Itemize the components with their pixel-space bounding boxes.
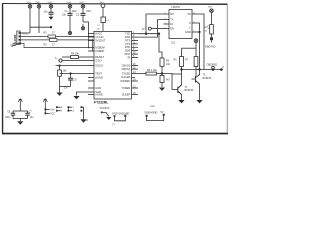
svg-text:DCD: DCD: [125, 52, 131, 56]
svg-text:VCC: VCC: [27, 2, 32, 4]
svg-text:K: K: [189, 21, 191, 25]
svg-text:PWREN: PWREN: [121, 79, 131, 83]
svg-text:2: 2: [165, 27, 166, 29]
svg-text:5: 5: [194, 30, 195, 32]
svg-text:GND GNDGND: GND GNDGND: [112, 112, 130, 115]
svg-text:4: 4: [165, 18, 166, 20]
svg-text:6: 6: [194, 21, 195, 23]
svg-text:AGND: AGND: [95, 92, 103, 96]
svg-text:R8 1.13k: R8 1.13k: [147, 69, 157, 72]
svg-text:VCC: VCC: [23, 32, 28, 35]
svg-text:TXD: TXD: [125, 32, 130, 36]
svg-text:SLEEP: SLEEP: [122, 92, 131, 96]
svg-text:TEST: TEST: [95, 71, 102, 75]
svg-text:OSCO: OSCO: [95, 64, 103, 68]
svg-text:DI: DI: [170, 22, 173, 26]
svg-text:VCC: VCC: [50, 113, 55, 116]
svg-text:100n: 100n: [5, 116, 11, 119]
svg-text:RESET: RESET: [95, 55, 104, 59]
svg-text:RTS: RTS: [125, 38, 130, 42]
svg-text:L9637D: L9637D: [172, 6, 181, 9]
svg-text:RXD: RXD: [125, 35, 131, 39]
svg-text:VCC: VCC: [48, 2, 53, 4]
svg-text:IC2: IC2: [171, 41, 176, 45]
svg-text:GND: GND: [150, 106, 155, 108]
svg-text:EN: EN: [170, 27, 174, 31]
svg-text:8: 8: [194, 12, 195, 14]
svg-text:10u: 10u: [30, 116, 35, 119]
svg-text:RX: RX: [170, 12, 174, 16]
svg-text:R4 10k: R4 10k: [71, 53, 79, 56]
svg-text:OBDRXD: OBDRXD: [207, 63, 218, 66]
svg-text:4k7: 4k7: [166, 79, 171, 82]
svg-text:GND: GND: [185, 30, 191, 34]
svg-text:3: 3: [165, 22, 166, 24]
svg-text:TXDEN: TXDEN: [121, 86, 130, 90]
svg-text:GND: GND: [11, 44, 17, 47]
svg-text:USBDP: USBDP: [95, 49, 104, 53]
svg-text:VCC5V0: VCC5V0: [100, 107, 110, 110]
svg-text:USBDM: USBDM: [95, 45, 104, 49]
svg-text:VS: VS: [187, 12, 191, 16]
svg-text:5V: 5V: [161, 111, 164, 114]
svg-text:CBUS0: CBUS0: [122, 64, 131, 68]
svg-text:DTR: DTR: [125, 45, 130, 49]
svg-text:FT232RL: FT232RL: [94, 101, 108, 105]
svg-text:VCCIO: VCCIO: [95, 35, 103, 39]
svg-text:10n: 10n: [62, 14, 67, 17]
svg-text:OBDTXD: OBDTXD: [205, 46, 216, 49]
svg-text:10n: 10n: [44, 10, 49, 13]
svg-text:CBUS1: CBUS1: [122, 67, 131, 71]
svg-text:LUSB: LUSB: [13, 34, 17, 43]
svg-text:AGND: AGND: [95, 75, 103, 79]
svg-text:+5V: +5V: [50, 109, 55, 112]
svg-text:GND: GND: [95, 86, 101, 90]
svg-text:AVCC: AVCC: [95, 31, 102, 35]
svg-text:VCC: VCC: [67, 2, 72, 4]
svg-text:RXLED: RXLED: [122, 75, 131, 79]
svg-text:TX: TX: [170, 18, 174, 22]
svg-text:TXLED: TXLED: [122, 71, 130, 75]
svg-text:BC847B: BC847B: [185, 90, 194, 92]
svg-text:CTS: CTS: [125, 42, 130, 46]
svg-text:VCC: VCC: [80, 2, 85, 4]
svg-text:1: 1: [165, 12, 166, 14]
svg-text:DSR: DSR: [125, 49, 131, 53]
svg-text:OSCI: OSCI: [95, 58, 102, 62]
svg-text:GNDAGND: GNDAGND: [145, 112, 158, 115]
svg-text:RI: RI: [128, 55, 131, 59]
svg-text:3V3OUT: 3V3OUT: [95, 38, 106, 42]
svg-text:BC847B: BC847B: [203, 78, 212, 80]
svg-text:100n: 100n: [86, 10, 92, 13]
